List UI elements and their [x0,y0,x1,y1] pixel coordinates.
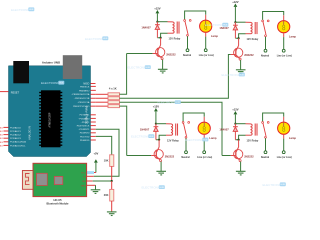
svg-text:2N2222: 2N2222 [165,154,175,158]
node J1a junction dot [156,21,158,23]
wire contact pole to Neutral terminal [185,138,187,151]
label 2N2222 (Q4) [244,154,254,158]
ground (emitter Q4) [236,171,246,175]
svg-text:1N4007: 1N4007 [219,127,229,131]
wire base of Q4 [222,155,235,157]
DC power jack [63,55,82,79]
svg-text:4 x 1K: 4 x 1K [109,86,117,90]
Arduino UNO board outline [9,66,91,157]
svg-text:AD3: AD3 [0,137,4,140]
label Lamp (L1) [211,34,219,38]
power +12V arrow (circuit 2) [234,4,238,23]
svg-text:2N2222: 2N2222 [244,53,254,57]
wire emitter to ground [162,60,164,70]
wire R2 to Q2 base (long node) [120,54,229,98]
svg-text:PB5/SCK: PB5/SCK [80,86,90,88]
wire +5V to HC-05 VCC [87,172,96,174]
ANALOG IN label [29,126,32,140]
label Lamp (L3) [209,136,217,140]
svg-text:12V Relay: 12V Relay [247,139,259,142]
label 4 x 1K [109,86,117,90]
label 2N2222 (Q2) [244,53,254,57]
terminal Neutral (circuit 1) [186,49,189,52]
power +12V arrow (circuit 1) [156,10,160,22]
watermark 5 [222,73,245,77]
wire R5 to divider node [111,166,113,181]
svg-text:HUB: HUB [240,74,245,76]
svg-text:12V Relay: 12V Relay [167,139,179,142]
digital pins lower group stubs [91,115,96,140]
wire arduino pin to R1 [96,93,108,95]
wire contact to lamp top [263,12,284,21]
HC-05 pin label RX [83,181,87,183]
svg-text:Bluetooth Module: Bluetooth Module [47,201,69,205]
wire base of Q1 [127,53,158,55]
MISO pin stub [91,83,96,85]
transistor Q3 2N2222 [154,140,163,162]
svg-text:Line (or Live): Line (or Live) [277,54,292,57]
wire R3 to Q4 base (long node down) [120,102,223,155]
wire arduino pin to R4 [96,105,108,107]
label Neutral (circuit 3) [181,156,190,159]
watermark 7 [185,138,208,142]
wire +12V node to diode cathode [234,124,236,127]
wire contact pole to Neutral terminal [187,36,189,49]
label Neutral (circuit 2) [261,54,270,57]
watermark 11 [131,134,154,138]
ground (emitter Q2) [236,70,246,74]
lamp L3 [198,122,210,134]
wire +12V node to relay coil top [157,21,172,23]
HC-05 pin label VCC [81,173,86,175]
MISO pin label [83,83,89,85]
node J1b junction dot [160,37,162,39]
Arduino UNO title label [42,61,61,65]
power +12V arrow (circuit 3) [154,108,158,124]
svg-text:Neutral: Neutral [183,54,192,57]
label 1N4007 (D4) [219,127,229,131]
label 12V Relay (RL4) [247,139,259,142]
diode D2 1N4007 (flyback) [233,25,238,38]
label HC-05 [53,198,62,202]
wire R4 to Q3 base (node down) [120,106,127,155]
resistor R4 1K [108,105,120,108]
relay RL3 contact switch [182,122,189,139]
ground (HC-05) [91,190,101,194]
terminal Neutral (circuit 2) [264,49,267,52]
wire +12V node to diode cathode [156,22,158,25]
power +5V arrow [94,159,98,172]
svg-text:Neutral: Neutral [181,156,190,159]
svg-text:12V Relay: 12V Relay [169,37,181,40]
RESET wire [0,91,9,93]
wire coil bottom to collector node [235,135,250,140]
node J4a junction dot [234,123,236,125]
svg-text:+12V: +12V [153,104,160,108]
svg-text:PD0/RXD: PD0/RXD [80,140,90,142]
svg-text:+5V: +5V [93,152,98,156]
svg-text:~PD5/T1: ~PD5/T1 [81,122,90,124]
label Lamp (L2) [289,34,297,38]
svg-text:HUB: HUB [149,136,154,138]
power +5V label [93,152,98,156]
svg-text:10K: 10K [104,159,109,163]
node J3a junction dot [155,123,157,125]
svg-text:HUB: HUB [103,38,108,40]
watermark 9 [263,182,286,186]
wire +12V node to relay coil top [156,123,171,125]
svg-text:PD4/T0/XCK: PD4/T0/XCK [77,126,90,128]
label Bluetooth Module [47,201,69,205]
wire divider node to R6 20K [111,181,113,189]
resistor R5 10K [110,155,114,167]
power +12V label (circuit 2) [232,0,239,4]
watermark 2 [85,36,108,40]
label 12V Relay (RL3) [167,139,179,142]
node J4b junction dot [238,139,240,141]
lamp L2 [278,21,290,33]
svg-text:Line (or Live): Line (or Live) [199,54,214,57]
relay RL1 coil 12V [173,22,180,34]
wire Arduino TXD to R5 10K [96,136,112,154]
terminal Line (circuit 2) [282,49,285,52]
wire contact pole to Neutral terminal [265,138,267,151]
relay RL1 contact switch [184,20,191,37]
svg-text:HUB: HUB [281,184,286,186]
svg-text:Line (or Live): Line (or Live) [277,156,292,159]
wire contact to lamp top [183,113,204,122]
svg-text:AD5: AD5 [0,144,4,147]
label 1N4007 (D2) [219,26,229,30]
svg-text:HUB: HUB [146,67,151,69]
wire arduino pin to R3 [96,101,108,103]
wire contact to lamp top [263,113,284,122]
DIGITAL PWM label [86,106,89,125]
label 2N2222 (Q1) [166,52,176,56]
wire emitter to ground [240,60,242,70]
resistor R3 1K [108,101,120,104]
wire contact pole to Neutral terminal [265,37,267,50]
svg-text:Lamp: Lamp [209,136,217,140]
svg-text:1N4007: 1N4007 [141,25,151,29]
svg-text:PD2/INT0: PD2/INT0 [80,133,90,135]
svg-text:Lamp: Lamp [289,34,297,38]
HC-05 shield can large [37,173,48,185]
svg-text:Lamp: Lamp [211,34,219,38]
svg-text:Arduino UNO: Arduino UNO [42,61,61,65]
watermark 6 [158,100,181,104]
relay RL4 contact switch [262,122,269,139]
RESET pin label [11,91,20,94]
digital pins upper group stubs [91,86,96,106]
svg-text:PB0/ICP1/CLKO: PB0/ICP1/CLKO [73,106,89,108]
wire Arduino RXD to HC-05 TX [87,129,119,176]
svg-text:2N2222: 2N2222 [166,52,176,56]
label Lamp (L4) [289,136,297,140]
svg-text:HC-05: HC-05 [53,198,62,202]
relay RL4 coil 12V [251,124,258,136]
label Neutral (circuit 4) [261,156,270,159]
wire +12V node to diode cathode [234,22,236,25]
wire R1 to Q1 base (node up) [120,54,127,95]
label 1N4007 (D3) [140,127,150,131]
label Neutral (circuit 1) [183,54,192,57]
terminal Line (circuit 1) [204,49,207,52]
power +12V label (circuit 1) [154,6,161,10]
node J2a junction dot [234,21,236,23]
power +12V label (circuit 3) [153,104,160,108]
svg-text:HUB: HUB [223,25,228,27]
chip pins [39,92,62,146]
svg-text:HUB: HUB [176,102,181,104]
svg-text:Neutral: Neutral [261,54,270,57]
svg-text:GND: GND [81,185,86,187]
wire +12V node to relay coil top [235,123,250,125]
HC-05 pin label GND [81,185,86,187]
wire coil bottom to collector node [157,33,172,38]
node divider junction dot [111,180,113,182]
svg-text:VCC: VCC [81,173,86,175]
wire base of Q2 [228,54,235,56]
svg-text:12V Relay: 12V Relay [247,38,259,41]
wire emitter to ground [160,162,162,172]
label 12V Relay (RL2) [247,38,259,41]
relay RL2 contact switch [262,20,269,37]
wire HC-05 GND to ground [87,185,96,190]
wire +12V node to diode cathode [155,124,157,127]
svg-text:PD1/TXD: PD1/TXD [80,136,90,138]
svg-text:20K: 20K [104,193,109,197]
svg-text:HUB: HUB [29,9,34,11]
resistor R2 1K [108,97,120,100]
power +12V label (circuit 4) [232,107,239,111]
ground (emitter Q3) [156,171,166,175]
svg-text:Line (or Live): Line (or Live) [197,156,212,159]
svg-text:~PB2/SS/OC1B: ~PB2/SS/OC1B [74,98,90,100]
label Line or Live (circuit 2) [277,54,292,57]
transistor Q1 2N2222 [156,38,165,60]
resistor R6 20K [110,189,114,201]
HC-05 chip small [54,176,63,184]
analog pins outer labels [0,126,4,147]
svg-text:Neutral: Neutral [261,156,270,159]
diode D3 1N4007 (flyback) [154,127,159,140]
ATMEGA328P chip body [41,90,61,147]
label 1N4007 (D1) [141,25,151,29]
wire lamp bottom to Line terminal [205,32,207,48]
svg-text:+12V: +12V [232,107,239,111]
watermark 10 [205,23,228,27]
label 12V Relay (RL1) [169,37,181,40]
wire HC-05 RX to divider node [87,180,112,182]
label Line or Live (circuit 1) [199,54,214,57]
digital pins lower group labels [77,114,90,142]
svg-text:AD0: AD0 [0,126,4,129]
terminal Line (circuit 3) [203,151,206,154]
transistor Q2 2N2222 [234,38,243,60]
svg-text:AD2: AD2 [0,134,4,137]
svg-text:+12V: +12V [154,6,161,10]
relay RL2 coil 12V [251,22,258,34]
wire emitter to ground [240,162,242,172]
svg-text:Lamp: Lamp [289,136,297,140]
terminal Line (circuit 4) [282,151,285,154]
wire R6 to ground [111,201,113,212]
ground (emitter Q1) [158,69,168,73]
wire arduino pin to R2 [96,97,108,99]
label 20K [104,193,109,197]
label Line or Live (circuit 3) [197,156,212,159]
transistor Q4 2N2222 [234,140,243,162]
ground (below R6) [107,212,117,216]
lamp L1 [200,20,212,32]
wire +12V node to relay coil top [235,21,250,23]
svg-text:RX: RX [83,181,87,183]
highlighted wire segment (cyan) [85,171,94,174]
relay RL3 coil 12V [171,124,178,136]
watermark 4 [128,65,151,69]
svg-text:HUB: HUB [59,83,64,85]
analog pins labels [10,126,26,147]
terminal Neutral (circuit 3) [185,151,188,154]
watermark 1 [11,7,34,11]
wire lamp bottom to Line terminal [283,33,285,49]
HC-05 antenna connector [22,171,33,190]
HC-05 module body [33,163,87,196]
digital pins upper group labels [71,86,90,108]
power +12V arrow (circuit 4) [234,111,238,124]
lamp L4 [278,122,290,134]
terminal Neutral (circuit 4) [264,151,267,154]
analog pins stubs [4,127,9,145]
svg-text:1N4007: 1N4007 [140,127,150,131]
resistor R1 1K [108,93,120,96]
node J2b junction dot [238,37,240,39]
label 10K [104,159,109,163]
svg-text:AD1: AD1 [0,130,4,133]
svg-text:RESET: RESET [11,91,20,94]
USB connector [13,61,29,83]
label 2N2222 (Q3) [165,154,175,158]
watermark 8 [142,185,165,189]
wire lamp bottom to Line terminal [283,134,285,150]
svg-text:+12V: +12V [232,0,239,4]
svg-text:MISO: MISO [83,83,89,85]
svg-text:HUB: HUB [203,139,208,141]
diode D1 1N4007 (flyback) [155,25,160,38]
diode D4 1N4007 (flyback) [233,127,238,140]
wire base of Q3 [127,155,156,157]
watermark 3 [41,81,64,85]
svg-text:AD4: AD4 [0,141,4,144]
wire coil bottom to collector node [235,34,250,39]
HC-05 pin label TX [83,176,86,178]
label Line or Live (circuit 4) [277,156,292,159]
svg-text:2N2222: 2N2222 [244,154,254,158]
svg-text:HUB: HUB [160,187,165,189]
node J3b junction dot [158,139,160,141]
svg-text:PB4/MISO: PB4/MISO [79,90,90,92]
svg-text:ANALOG IN: ANALOG IN [29,126,32,140]
wire lamp bottom to Line terminal [203,134,205,150]
svg-text:~PD3/INT1: ~PD3/INT1 [78,129,90,131]
wire contact to lamp top [185,11,206,20]
wire coil bottom to collector node [156,135,171,140]
